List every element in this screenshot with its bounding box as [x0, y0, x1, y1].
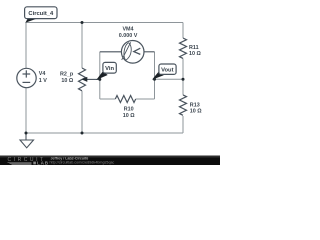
svg-text:10 Ω: 10 Ω [189, 51, 201, 57]
potentiometer R2_p wiper [82, 77, 100, 82]
resistor R13 [180, 95, 187, 115]
ground [20, 133, 34, 148]
junction ground [25, 132, 28, 135]
wire R10 leads [100, 98, 155, 100]
node Circuit_4 flag [25, 7, 57, 23]
watermark attribution text [50, 157, 115, 165]
wire pot branch [81, 23, 83, 134]
resistor R11 [180, 38, 187, 58]
potentiometer R2_p [79, 68, 86, 91]
wire Vin vertical [99, 52, 101, 99]
svg-text:10 Ω: 10 Ω [123, 113, 135, 119]
wire V4 bottom lead [25, 88, 27, 133]
label V4 value [39, 71, 47, 84]
label R2_p value [60, 71, 74, 84]
node Vout flag [152, 64, 176, 80]
svg-text:R10: R10 [124, 107, 134, 113]
svg-text:R2_p: R2_p [60, 71, 74, 77]
wire top rail [26, 22, 183, 24]
junction pot bottom [81, 132, 84, 135]
wire Vout vertical [154, 52, 156, 99]
watermark bar [0, 156, 220, 166]
svg-text:V4: V4 [39, 71, 46, 77]
label R10 value [123, 107, 135, 119]
svg-text:LAB: LAB [37, 161, 49, 166]
junction Vin node [98, 78, 101, 81]
junction Vout node [153, 78, 156, 81]
voltage source V4 [17, 68, 36, 87]
svg-text:Vout: Vout [161, 68, 174, 74]
resistor R10 [115, 96, 135, 103]
wire Vout to rail [155, 78, 184, 80]
label R13 value [190, 103, 202, 115]
svg-text:10 Ω: 10 Ω [190, 109, 202, 115]
watermark logo CIRCUIT LAB [8, 157, 49, 166]
wire V4 top lead [25, 22, 27, 68]
junction pot top [81, 21, 84, 24]
junction right rail [182, 78, 185, 81]
voltmeter VM4 [100, 41, 155, 64]
svg-text:10 Ω: 10 Ω [61, 78, 73, 84]
svg-text:Vin: Vin [105, 66, 114, 72]
label R11 value [189, 45, 201, 57]
label VM4 value [119, 27, 138, 40]
svg-text:VM4: VM4 [122, 27, 133, 33]
svg-text:Circuit_4: Circuit_4 [28, 11, 54, 17]
wire right rail [182, 23, 184, 134]
svg-text:http://circuitlab.com/c/e89dk4: http://circuitlab.com/c/e89dk4bmgs5qac [50, 161, 115, 165]
wire bottom rail [26, 132, 183, 134]
svg-text:1 V: 1 V [39, 78, 47, 84]
node Vin flag [96, 62, 116, 80]
svg-text:0.000 V: 0.000 V [119, 33, 138, 39]
